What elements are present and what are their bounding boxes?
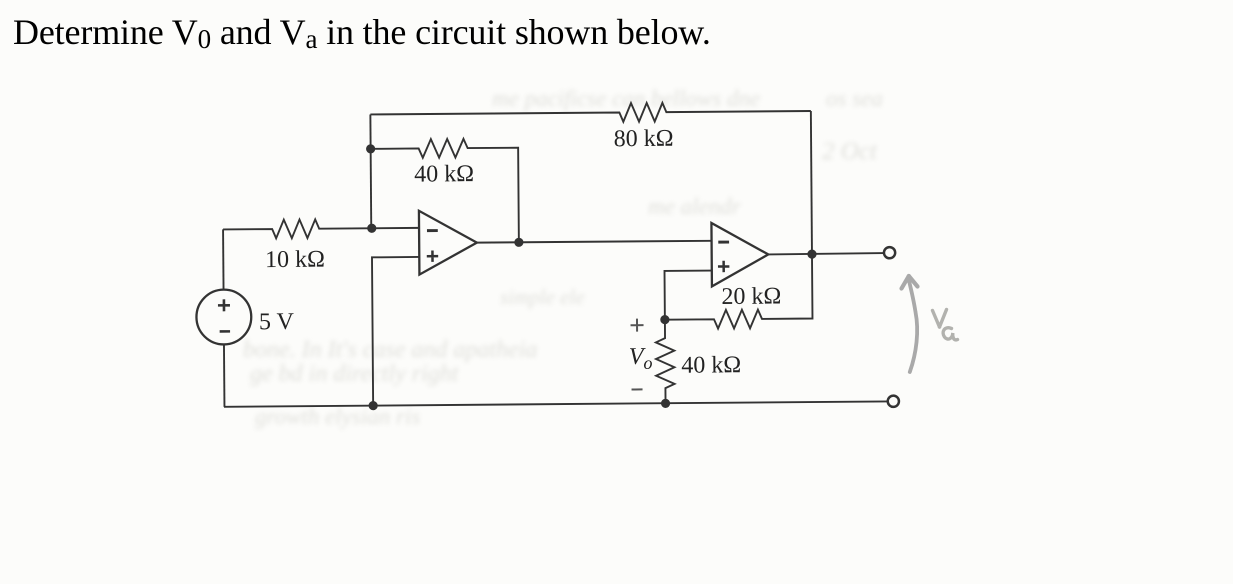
svg-text:5 V: 5 V bbox=[259, 309, 295, 335]
svg-text:80 kΩ: 80 kΩ bbox=[614, 126, 674, 152]
svg-text:40 kΩ: 40 kΩ bbox=[414, 161, 474, 187]
svg-text:10 kΩ: 10 kΩ bbox=[265, 247, 325, 273]
svg-text:40 kΩ: 40 kΩ bbox=[681, 352, 741, 378]
svg-text:Vo: Vo bbox=[629, 344, 653, 373]
svg-text:20 kΩ: 20 kΩ bbox=[721, 284, 781, 310]
